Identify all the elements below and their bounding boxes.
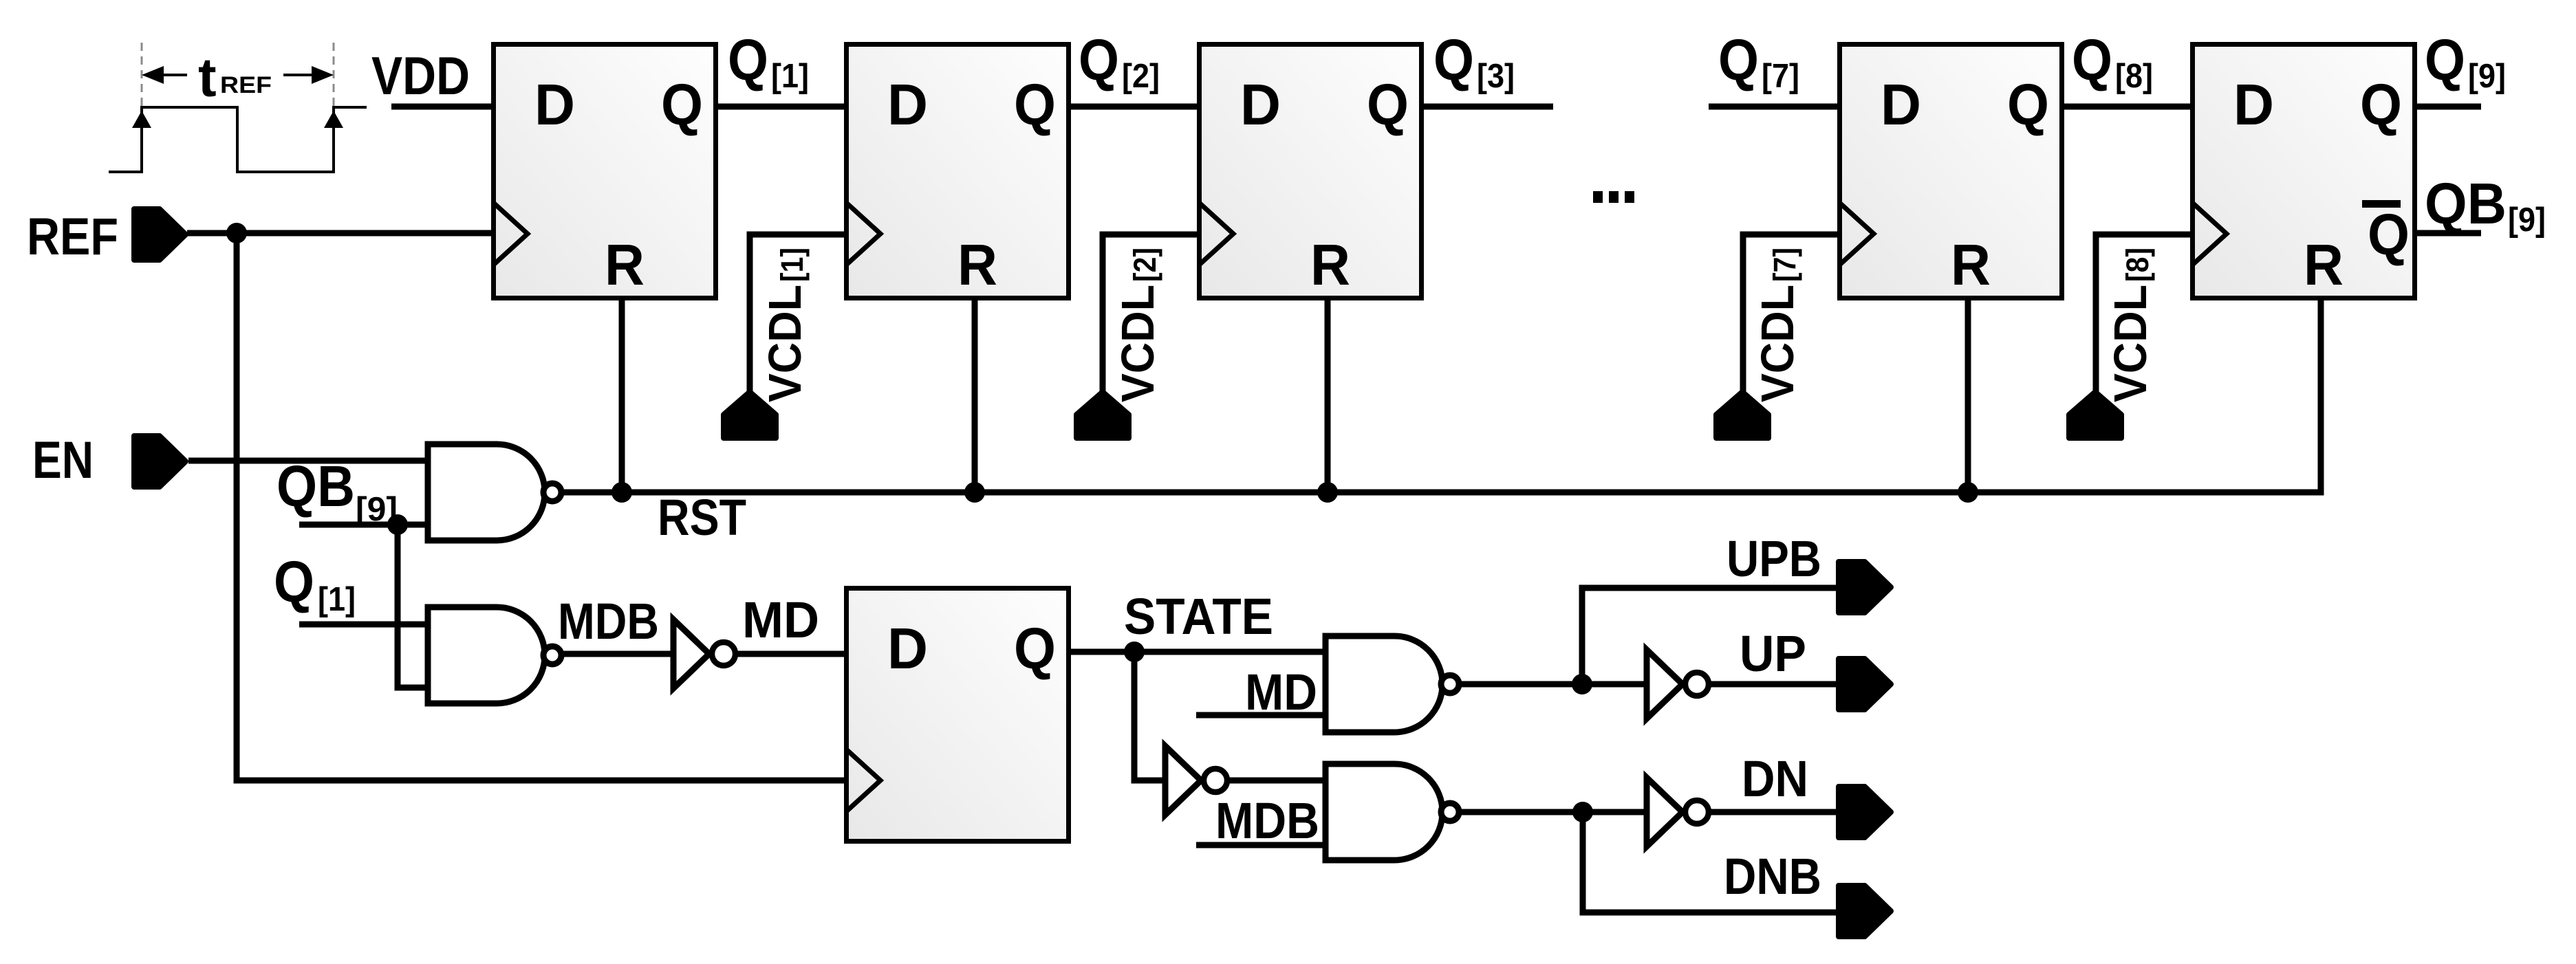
svg-text:[2]: [2] [1122,58,1160,95]
svg-text:Q: Q [1367,72,1409,137]
svg-text:R: R [605,232,645,297]
svg-text:MDB: MDB [1215,792,1319,849]
svg-text:MDB: MDB [558,593,659,650]
svg-text:REF: REF [220,72,272,98]
svg-text:t: t [198,47,217,108]
svg-text:[1]: [1] [318,581,356,618]
svg-text:REF: REF [27,208,118,266]
svg-text:[1]: [1] [771,58,809,95]
svg-text:VCDL: VCDL [2105,285,2156,402]
svg-text:Q: Q [728,28,768,92]
svg-text:[9]: [9] [2468,58,2506,95]
svg-text:D: D [1240,72,1281,137]
svg-text:D: D [887,72,928,137]
svg-text:[2]: [2] [1127,248,1162,282]
svg-text:Q: Q [2368,202,2410,267]
svg-text:[7]: [7] [1767,248,1802,282]
svg-text:QB: QB [2425,171,2507,236]
svg-text:[9]: [9] [356,491,398,528]
svg-text:R: R [957,232,997,297]
svg-text:Q: Q [1014,616,1056,681]
svg-text:Q: Q [1433,28,1474,92]
svg-text:R: R [1951,232,1991,297]
svg-text:[1]: [1] [775,248,810,282]
svg-text:EN: EN [32,431,94,490]
svg-text:[8]: [8] [2115,58,2153,95]
svg-text:[3]: [3] [1477,58,1515,95]
svg-text:D: D [2233,72,2274,137]
svg-text:Q: Q [1718,28,1759,92]
svg-text:UPB: UPB [1727,530,1821,587]
svg-text:R: R [1310,232,1350,297]
svg-text:Q: Q [2360,72,2402,137]
svg-text:Q: Q [1014,72,1056,137]
svg-text:D: D [1881,72,1921,137]
svg-text:Q: Q [274,549,314,614]
svg-text:R: R [2304,232,2344,297]
svg-text:VCDL: VCDL [759,285,811,402]
svg-text:[8]: [8] [2120,248,2155,282]
svg-text:STATE: STATE [1124,588,1273,645]
svg-text:Q: Q [2072,28,2112,92]
svg-text:VDD: VDD [371,45,470,106]
svg-text:[9]: [9] [2508,201,2546,239]
svg-text:RST: RST [658,489,746,546]
svg-text:Q: Q [1079,28,1119,92]
svg-text:VCDL: VCDL [1752,285,1804,402]
svg-text:D: D [534,72,575,137]
svg-text:Q: Q [661,72,703,137]
svg-text:MD: MD [742,591,819,648]
svg-text:DNB: DNB [1724,848,1821,905]
svg-text:QB: QB [277,454,355,518]
svg-text:VCDL: VCDL [1112,285,1164,402]
svg-text:[7]: [7] [1762,58,1799,95]
svg-text:D: D [887,616,928,681]
svg-text:MD: MD [1245,664,1317,721]
svg-text:DN: DN [1742,750,1808,807]
svg-text:Q: Q [2425,28,2465,92]
svg-text:UP: UP [1740,625,1806,682]
svg-text:Q: Q [2007,72,2049,137]
